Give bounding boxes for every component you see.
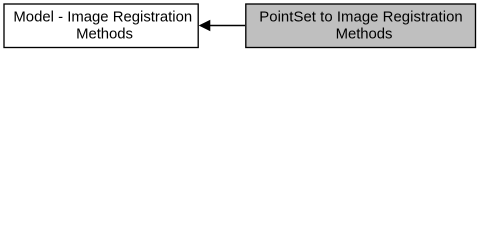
wire bbox=[209, 25, 245, 27]
svg-text:Model - Image Registration: Model - Image Registration bbox=[13, 10, 192, 26]
node: PointSet to Image Registration Methods (right box, highlighted) bbox=[246, 4, 476, 48]
svg-text:PointSet to Image Registration: PointSet to Image Registration bbox=[259, 10, 462, 26]
svg-text:Methods: Methods bbox=[76, 27, 133, 43]
node: Model - Image Registration Methods (left box) bbox=[4, 4, 198, 48]
svg-text:Methods: Methods bbox=[336, 27, 393, 43]
edge: arrow from right box to left box bbox=[200, 20, 245, 30]
arrowhead bbox=[200, 20, 210, 30]
